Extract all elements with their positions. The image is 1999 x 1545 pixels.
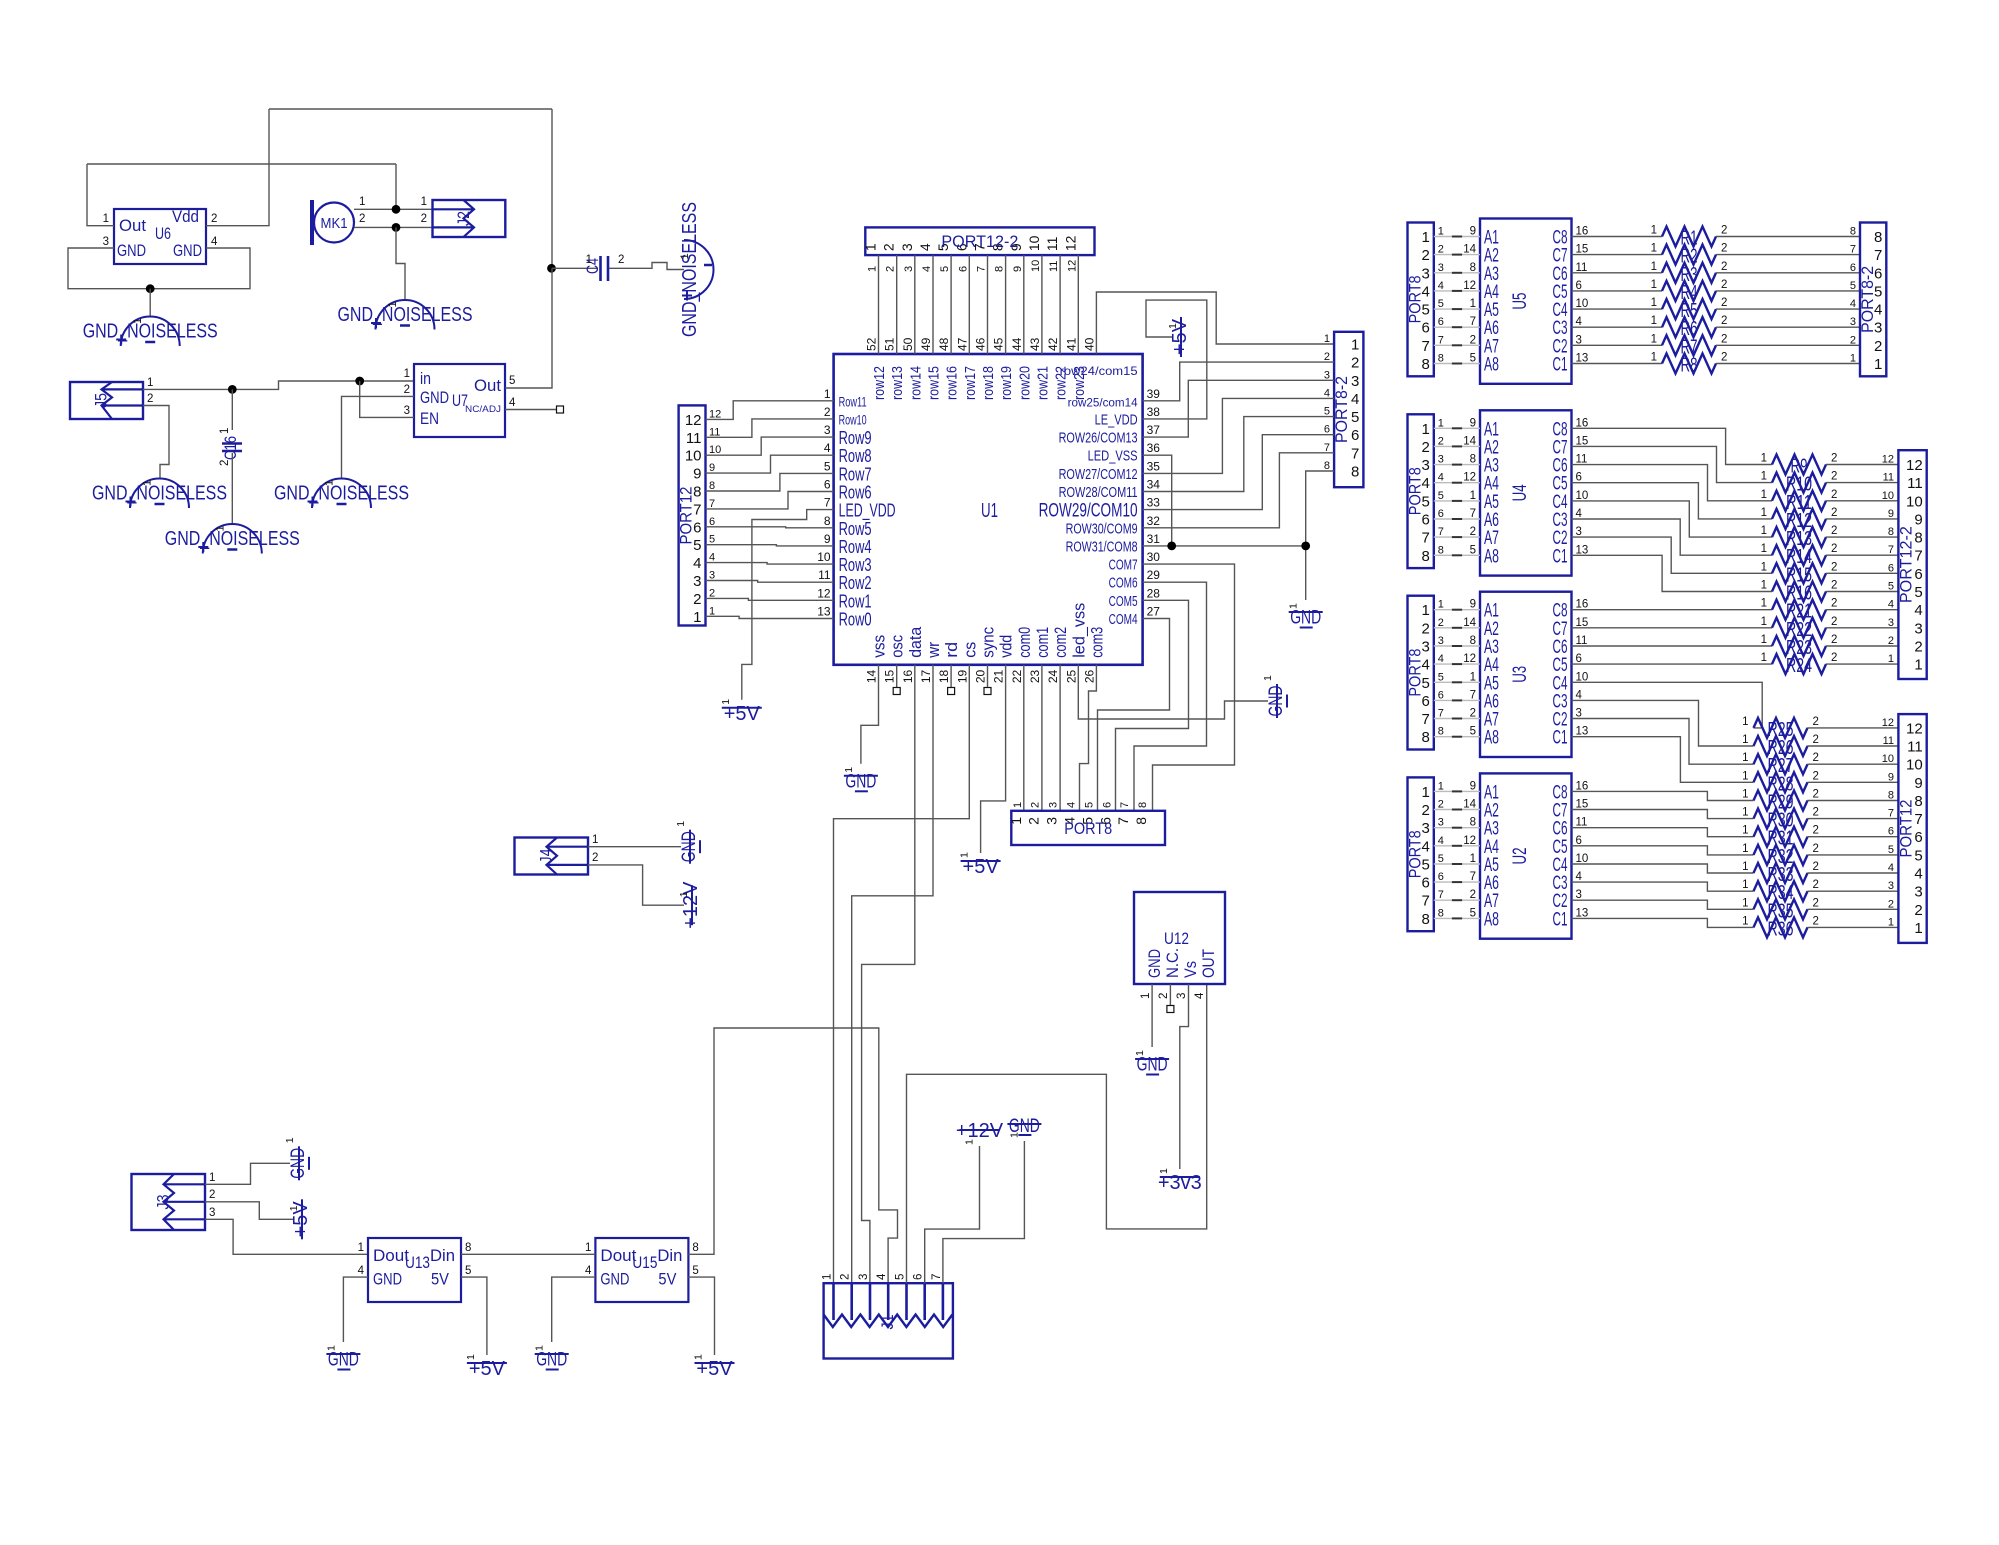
svg-text:2: 2 [1831,453,1837,465]
connector J4 [515,838,589,875]
svg-text:12: 12 [1463,280,1476,292]
wire rd nc [950,665,952,687]
wire [1826,627,1899,629]
ground GND [843,767,878,793]
svg-text:1: 1 [1438,417,1444,429]
svg-text:1: 1 [1421,784,1429,801]
svg-text:sync: sync [979,626,998,657]
svg-text:9: 9 [1888,508,1894,520]
svg-text:7: 7 [1421,711,1429,728]
wire [1572,900,1754,909]
svg-text:2: 2 [359,213,365,225]
wire [1434,272,1480,274]
wire Row4 net [706,545,834,546]
power symbol +12V [678,881,702,929]
wire U7 EN pin3 [360,381,414,417]
svg-text:COM7: COM7 [1109,557,1138,574]
svg-text:5: 5 [1470,353,1476,365]
wire [1572,555,1773,591]
svg-text:9: 9 [1914,511,1922,528]
svg-text:7: 7 [1421,338,1429,355]
svg-text:2: 2 [592,852,598,864]
svg-text:6: 6 [1438,871,1444,883]
wire cs net [834,665,970,1287]
svg-text:2: 2 [1421,802,1429,819]
wire [1716,363,1860,365]
svg-text:35: 35 [1147,459,1161,473]
wire [1572,791,1754,800]
wire [1434,326,1480,328]
svg-text:1: 1 [1742,770,1748,782]
wire net [1452,254,1462,256]
resistor R34 [1742,879,1819,904]
svg-text:30: 30 [1147,550,1161,564]
wire net [1452,464,1462,466]
svg-text:6: 6 [957,266,969,272]
svg-text:12: 12 [709,408,721,420]
svg-text:8: 8 [1914,793,1922,810]
svg-text:1: 1 [1158,1168,1170,1174]
connector PORT8 [1406,596,1434,750]
svg-text:+12V: +12V [680,881,702,929]
svg-text:1: 1 [959,852,971,858]
svg-text:4: 4 [1576,689,1583,701]
svg-text:6: 6 [1576,472,1582,484]
wire [1434,790,1480,792]
svg-text:1: 1 [1262,675,1274,681]
svg-text:12: 12 [1882,454,1894,466]
ground GND_NOISELESS [165,524,300,553]
svg-text:8: 8 [1914,530,1922,547]
svg-text:Row5: Row5 [839,519,872,539]
junction [1167,542,1176,551]
svg-text:row13: row13 [889,366,906,400]
wire com2 to PORT8 pin3 [1059,665,1061,811]
wire net [1452,363,1462,365]
svg-text:3: 3 [824,423,831,437]
resistor R35 [1742,897,1819,922]
wire [1434,917,1480,919]
resistor R8 [1651,352,1728,377]
svg-text:2: 2 [1831,471,1837,483]
wire net [1452,427,1462,429]
svg-text:+5V: +5V [469,1358,506,1380]
svg-text:1: 1 [1470,853,1476,865]
wire [1041,255,1043,354]
svg-text:15: 15 [1576,435,1589,447]
junction [355,377,364,386]
svg-text:1: 1 [1742,879,1748,891]
svg-text:row21: row21 [1034,366,1051,400]
wire [1826,518,1899,520]
svg-text:48: 48 [937,337,951,351]
wire net [1452,609,1462,611]
svg-text:10: 10 [1576,671,1589,683]
svg-text:in: in [420,369,431,388]
wire [1807,818,1898,820]
svg-text:10: 10 [1882,490,1894,502]
svg-text:GND_NOISELESS: GND_NOISELESS [83,320,218,342]
svg-text:2: 2 [1914,902,1922,919]
wire [878,255,880,354]
svg-text:U3: U3 [1510,666,1531,683]
junction [146,284,155,293]
wire [1572,344,1663,346]
wire [1572,465,1773,501]
wire net [1452,445,1462,447]
svg-text:39: 39 [1147,387,1161,401]
svg-text:5: 5 [1888,581,1894,593]
svg-text:4: 4 [876,1273,888,1280]
svg-text:21: 21 [992,669,1006,683]
svg-text:1: 1 [1324,333,1330,345]
wire J4 pin2 to +12V [588,865,684,905]
svg-text:1: 1 [1761,598,1767,610]
svg-text:4: 4 [1351,391,1359,408]
svg-text:J1: J1 [878,1315,897,1330]
svg-text:10: 10 [1026,235,1042,251]
resistor R26 [1742,734,1819,759]
svg-text:2: 2 [1351,355,1359,372]
connector PORT12 [677,405,706,625]
svg-text:vdd: vdd [997,635,1016,658]
svg-text:2: 2 [1914,638,1922,655]
svg-text:Dout: Dout [373,1246,409,1265]
IC U5 [1480,219,1572,384]
svg-text:10: 10 [817,550,831,564]
svg-text:2: 2 [421,213,427,225]
svg-text:3: 3 [903,266,915,272]
svg-text:13: 13 [1576,544,1589,556]
connector PORT8 [1406,414,1434,568]
svg-text:1: 1 [1651,225,1657,237]
ground GND [1007,1116,1041,1138]
svg-text:3: 3 [1044,817,1060,825]
svg-text:Vdd: Vdd [172,207,199,226]
svg-text:3: 3 [1888,617,1894,629]
wire ROW31/COM8 net [1143,545,1306,547]
svg-text:5: 5 [895,1274,907,1280]
svg-text:7: 7 [1850,244,1856,256]
svg-text:+5V: +5V [696,1358,733,1380]
svg-text:6: 6 [1438,316,1444,328]
wire COM5 to PORT8 pin6 [1116,600,1189,811]
wire U15 Din net [688,1028,897,1287]
wire net [1452,554,1462,556]
svg-text:A8: A8 [1484,355,1499,376]
svg-text:6: 6 [1576,653,1582,665]
svg-text:GND: GND [1266,686,1287,717]
svg-text:1: 1 [1651,243,1657,255]
svg-text:8: 8 [1874,229,1882,246]
svg-text:3: 3 [1576,708,1582,720]
svg-text:1: 1 [132,318,144,324]
svg-text:26: 26 [1082,669,1096,683]
svg-text:2: 2 [1026,817,1042,825]
svg-text:1: 1 [214,525,226,531]
svg-text:8: 8 [1470,635,1476,647]
svg-text:1: 1 [147,377,153,389]
wire osc nc [896,665,898,687]
svg-text:1: 1 [720,699,732,705]
svg-text:11: 11 [1907,739,1923,756]
power symbol +3v3 [1158,1168,1202,1194]
svg-text:2: 2 [1831,543,1837,555]
svg-text:1: 1 [1651,279,1657,291]
svg-text:3: 3 [1438,454,1444,466]
svg-text:6: 6 [1888,826,1894,838]
ground GND [1262,675,1287,718]
svg-text:Row8: Row8 [839,446,872,466]
svg-text:1: 1 [1167,323,1179,329]
svg-text:1: 1 [964,1139,976,1145]
svg-text:U4: U4 [1510,484,1531,501]
svg-text:GND: GND [328,1350,359,1371]
svg-text:1: 1 [1761,453,1767,465]
svg-text:3: 3 [1576,889,1582,901]
wire [1807,763,1898,765]
svg-text:2: 2 [147,393,153,405]
svg-text:9: 9 [1470,226,1476,238]
resistor R31 [1742,825,1819,850]
svg-text:12: 12 [685,412,702,429]
wire COM4 to PORT8 pin5 [1098,619,1170,811]
svg-text:45: 45 [992,337,1006,351]
svg-text:4: 4 [358,1265,365,1277]
svg-text:12: 12 [1463,835,1476,847]
capacitor C16 [221,436,242,460]
wire [1716,236,1860,238]
svg-text:GND_NOISELESS: GND_NOISELESS [679,202,701,337]
svg-text:9: 9 [1470,417,1476,429]
svg-text:4: 4 [1438,835,1444,847]
svg-text:1: 1 [1914,657,1922,674]
IC U12 (sensor) [1134,892,1225,984]
wire [1572,719,1754,765]
wire U7 pin4 nc [505,409,556,411]
svg-text:2: 2 [1813,716,1819,728]
svg-text:7: 7 [931,1274,943,1280]
svg-text:C1: C1 [1553,355,1568,376]
svg-text:8: 8 [1421,729,1429,746]
svg-text:Out: Out [119,216,146,235]
power symbol +5V [693,1354,735,1380]
svg-text:GND: GND [600,1270,629,1289]
svg-text:1: 1 [284,1137,296,1143]
svg-text:2: 2 [1721,315,1727,327]
no-connect [1167,1006,1174,1013]
wire data net [862,665,915,1287]
svg-text:+3v3: +3v3 [1158,1172,1202,1194]
svg-text:osc: osc [888,634,907,657]
wire [1434,464,1480,466]
svg-text:4: 4 [709,552,715,564]
wire net [1452,236,1462,238]
svg-text:4: 4 [693,555,701,572]
svg-text:49: 49 [919,337,933,351]
resistor R10 [1761,471,1838,496]
svg-text:1: 1 [1012,802,1024,808]
svg-text:11: 11 [1576,635,1588,647]
wire [932,255,934,354]
svg-text:7: 7 [1888,808,1894,820]
junction [228,385,237,394]
svg-text:1: 1 [1761,561,1767,573]
svg-text:ROW30/COM9: ROW30/COM9 [1066,520,1138,537]
svg-text:8: 8 [1133,817,1149,825]
resistor network J1 [824,1283,953,1358]
svg-text:3: 3 [1438,635,1444,647]
svg-text:6: 6 [1888,562,1894,574]
connector J2 [433,200,506,237]
svg-text:1: 1 [288,1205,300,1211]
svg-text:3: 3 [1438,817,1444,829]
svg-text:3: 3 [1576,526,1582,538]
wire Row0 net [706,616,834,618]
wire [1716,344,1860,346]
svg-text:27: 27 [1147,605,1161,619]
svg-text:1: 1 [693,609,701,626]
svg-text:1: 1 [1761,507,1767,519]
svg-text:4: 4 [1066,802,1078,808]
resistor R1 [1651,225,1728,250]
svg-text:46: 46 [974,337,988,351]
wire [1826,645,1899,647]
connector PORT8 [1406,223,1434,377]
wire U1 pin32 to PORT8-2 pin7 [1143,453,1335,528]
no-connect [893,688,900,695]
connector PORT12 [1896,714,1926,943]
svg-text:7: 7 [1438,889,1444,901]
svg-text:1: 1 [358,1242,364,1254]
wire [1826,609,1899,611]
svg-text:4: 4 [1888,599,1894,611]
wire [1807,727,1898,729]
wire [914,255,916,354]
svg-text:10: 10 [1882,753,1894,765]
svg-text:11: 11 [1576,454,1588,466]
wire [1807,745,1898,747]
svg-text:8: 8 [709,480,715,492]
svg-text:3: 3 [1576,334,1582,346]
svg-text:16: 16 [1576,780,1589,792]
svg-text:PORT12-2: PORT12-2 [1896,526,1915,603]
svg-text:GND: GND [1145,949,1164,978]
svg-text:9: 9 [693,466,701,483]
svg-text:row17: row17 [962,366,979,400]
wire [1434,681,1480,683]
svg-text:1: 1 [1421,421,1429,438]
wire net [1452,536,1462,538]
wire [1826,663,1899,665]
svg-text:1: 1 [1438,226,1444,238]
wire U15 5V to +5V [688,1277,714,1355]
svg-text:Row11: Row11 [839,393,867,409]
wire [1059,255,1061,354]
svg-text:11: 11 [1044,236,1060,251]
svg-text:3: 3 [1438,262,1444,274]
wire [1826,591,1899,593]
svg-text:NC/ADJ: NC/ADJ [465,404,501,415]
svg-text:8: 8 [1470,817,1476,829]
wire [1826,464,1899,466]
svg-text:data: data [906,626,925,658]
svg-text:20: 20 [974,669,988,683]
resistor R5 [1651,297,1728,322]
svg-text:1: 1 [534,1345,546,1351]
wire net [1452,326,1462,328]
wire J3 pin2 to +5V [205,1202,294,1220]
svg-text:6: 6 [1576,835,1582,847]
wire [1807,890,1898,892]
svg-text:2: 2 [1813,861,1819,873]
svg-text:GND: GND [373,1270,402,1289]
svg-text:U1: U1 [981,500,998,522]
svg-text:41: 41 [1064,337,1078,351]
svg-text:4: 4 [211,236,218,248]
svg-text:LE_VDD: LE_VDD [1095,411,1138,428]
svg-text:2: 2 [1030,802,1042,808]
svg-text:8: 8 [1421,356,1429,373]
wire [1716,308,1860,310]
svg-text:2: 2 [404,384,410,396]
svg-text:1: 1 [675,821,687,827]
svg-text:4: 4 [921,266,933,272]
ground GND_NOISELESS (rotated) [679,202,714,337]
wire J3 pin3 to U13 Dout [205,1219,368,1254]
svg-text:5V: 5V [431,1270,450,1289]
svg-text:4: 4 [917,243,933,251]
svg-text:C16: C16 [221,436,240,460]
svg-text:rd: rd [942,642,961,658]
svg-text:8: 8 [1421,548,1429,565]
svg-text:7: 7 [1351,445,1359,462]
svg-text:37: 37 [1147,423,1161,437]
svg-text:9: 9 [1012,266,1024,272]
no-connect [984,688,991,695]
svg-text:LED_VSS: LED_VSS [1088,448,1138,465]
svg-text:2: 2 [709,587,715,599]
svg-text:7: 7 [1119,802,1131,808]
regulator U7 [414,364,505,437]
connector PORT12-2 [1896,450,1926,679]
svg-text:8: 8 [1351,464,1359,481]
wire [1807,836,1898,838]
wire wr net [852,665,933,1287]
svg-text:8: 8 [1850,226,1856,238]
wire PORT8-2 pin8 vertical [1306,471,1334,600]
resistor R13 [1761,525,1838,550]
svg-text:6: 6 [913,1274,925,1280]
svg-text:19: 19 [955,669,969,683]
svg-text:10: 10 [1906,757,1923,774]
svg-text:2: 2 [1813,770,1819,782]
svg-text:4: 4 [1438,472,1444,484]
svg-text:5: 5 [1850,280,1856,292]
wire U13 Din to U15 Dout [461,1253,595,1255]
svg-text:16: 16 [901,669,915,683]
svg-text:3: 3 [709,570,715,582]
svg-text:row22: row22 [1053,366,1070,400]
wire Row7 net [706,473,834,491]
svg-text:11: 11 [1048,261,1060,272]
wire [1716,254,1860,256]
svg-text:24: 24 [1046,669,1060,683]
wire [395,164,397,209]
wire Row2 net [706,581,834,583]
wire [1434,645,1480,647]
svg-text:31: 31 [1147,532,1161,546]
